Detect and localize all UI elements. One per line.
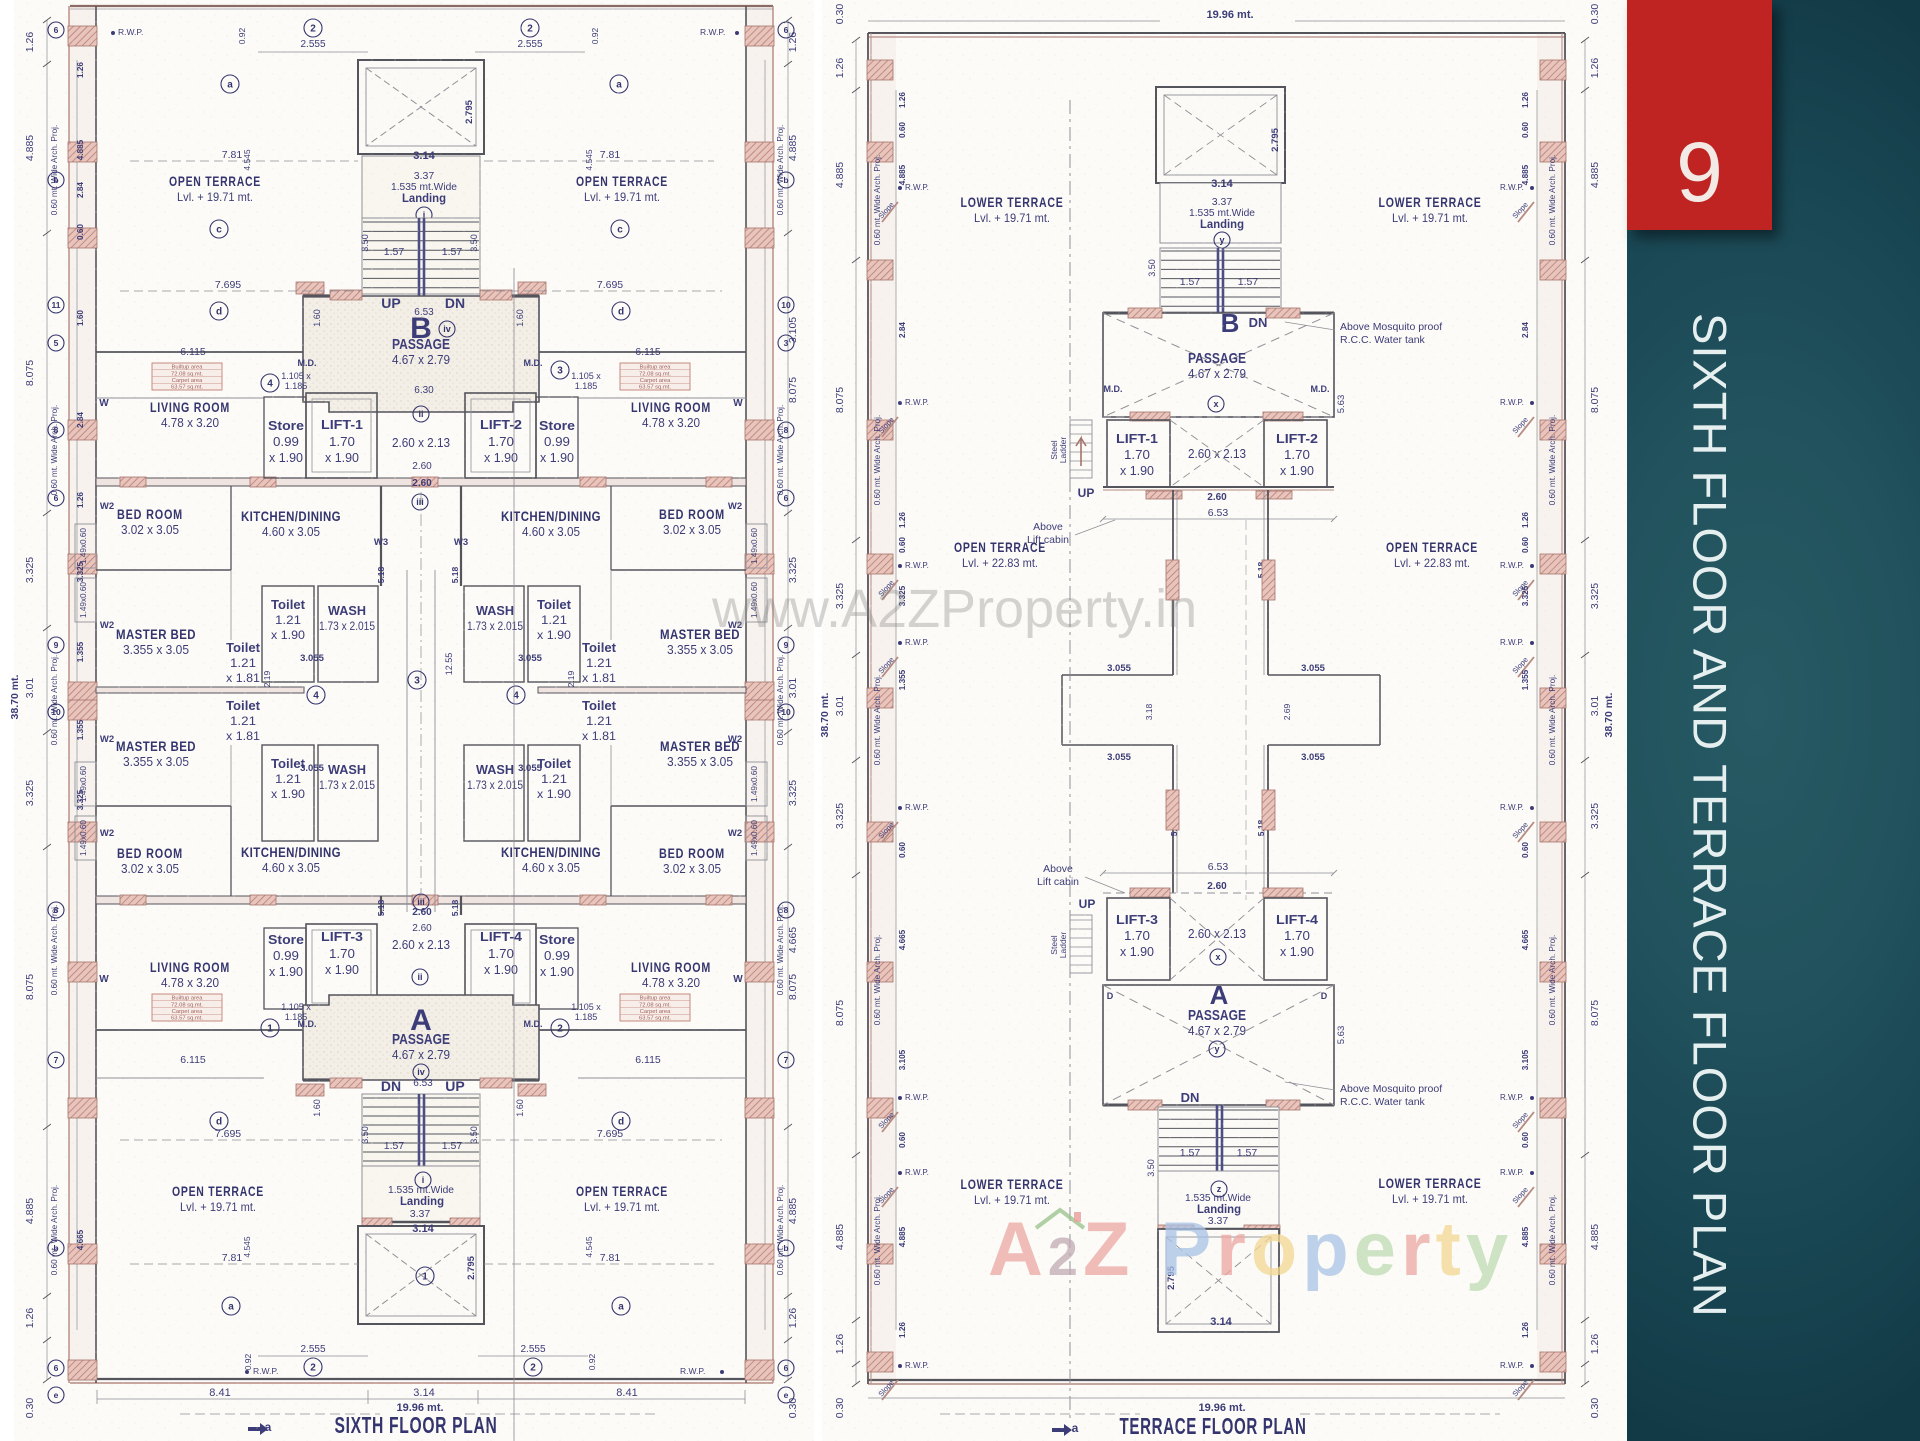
left sheet wall pier hatch blocks on right wall: [745, 26, 774, 46]
vertical slide title: [1678, 312, 1742, 1318]
teal sidebar: [1627, 0, 1920, 1441]
left sheet paper background: [14, 0, 814, 1441]
red page number tab: [1627, 0, 1772, 230]
left sheet water tank box (top): [358, 60, 484, 154]
wash box west: [318, 745, 378, 841]
left sheet horizontal wall below open terrace (line d): [96, 351, 303, 353]
right sheet staircase (bottom): [1158, 1107, 1279, 1171]
left sheet store room east (bottom): [536, 928, 578, 1009]
left sheet vertical shaft walls with W3: [380, 486, 382, 586]
left sheet main cross wall below lift row: [96, 478, 746, 486]
left sheet horizontal wall above living rooms: [96, 397, 264, 399]
left sheet lift-4: [465, 924, 536, 1009]
left sheet area statement box north-west: [152, 363, 222, 390]
left sheet staircase (bottom): [362, 1094, 480, 1166]
left sheet passage B block: [303, 296, 539, 412]
left sheet staircase (top) center rail: [418, 218, 421, 296]
right sheet landing (bottom): [1158, 1171, 1279, 1229]
left sheet landing (top): [362, 156, 480, 218]
left sheet grid bubbles east edge: [778, 22, 794, 38]
bottom watermark A2Z Property logo: [988, 1206, 1513, 1293]
left sheet outer top border wall: [70, 5, 773, 7]
left sheet store room east (top): [536, 397, 578, 478]
right sheet paper background: [822, 0, 1627, 1441]
right sheet passage A terrace block: [1103, 985, 1334, 1105]
right sheet outer border walls: [868, 32, 1565, 34]
right sheet outer wall band tint: [868, 33, 896, 1384]
left sheet horizontal wall at bedroom rows: [96, 569, 231, 571]
toilet box west-inner: [262, 586, 314, 682]
right sheet long dashed section lines: [1069, 100, 1071, 1420]
right sheet lift row bottom wall (top core): [1103, 486, 1334, 488]
left sheet grid bubbles west edge: [48, 22, 64, 38]
right sheet steel ladder (top): [1070, 420, 1092, 478]
logo house roof icon: [1036, 1210, 1084, 1228]
right sheet water tank box (top): [1156, 87, 1285, 183]
left sheet staircase (top) treads: [362, 218, 480, 294]
left sheet outer wall band tint: [69, 6, 96, 1383]
left sheet mid cross wall (between master beds): [96, 687, 304, 693]
left sheet scan fold line: [513, 268, 515, 1441]
toilet box east-inner: [528, 745, 580, 841]
right sheet wall pier hatch blocks east: [1540, 60, 1566, 80]
right sheet passage B terrace block: [1103, 313, 1334, 417]
right sheet water tank box (bottom): [1158, 1229, 1279, 1332]
left sheet outer left wall with arch projection band: [68, 6, 70, 1383]
left sheet circled iii above lift row (bottom): [413, 894, 429, 910]
left sheet store room west (top): [264, 397, 306, 478]
left sheet vertical walls bedroom/kitchen separation: [230, 486, 232, 570]
left sheet balcony ledges 1.49x0.60 right: [746, 524, 767, 568]
left sheet top edge dim 2.555 with projection arrows: [304, 19, 322, 37]
wash box east: [464, 586, 524, 682]
right sheet wall pier hatch blocks west: [867, 60, 893, 80]
right sheet lift row (top): [1103, 416, 1334, 418]
wash box east: [464, 745, 524, 841]
right sheet lift row (bottom): [1103, 892, 1334, 894]
central watermark www.A2ZProperty.in: [712, 578, 1197, 640]
left sheet lift-2: [465, 393, 536, 478]
left sheet store room west (bottom): [264, 928, 306, 1009]
left sheet outer right wall with arch projection band: [772, 6, 774, 1383]
left sheet area statement box north-east: [620, 363, 690, 390]
right sheet central shaft walls (middle): [1172, 490, 1174, 675]
left sheet balcony ledges 1.49x0.60 left: [75, 524, 96, 568]
left sheet cross wall above lower living rooms: [96, 896, 746, 904]
right sheet inner wall offset lines: [895, 90, 897, 1330]
left sheet landing (bottom): [362, 1166, 480, 1222]
left sheet passage A block: [303, 995, 539, 1080]
right sheet steel ladder (bottom): [1070, 915, 1092, 973]
toilet box east-inner: [528, 586, 580, 682]
right sheet landing (top): [1160, 183, 1281, 243]
left sheet central corridor lines: [406, 570, 408, 912]
left sheet lift-3: [306, 924, 377, 1009]
left sheet outer bottom border wall: [70, 1378, 773, 1380]
left sheet water tank box (bottom): [358, 1226, 484, 1324]
left sheet wall pier hatch blocks on left wall: [68, 26, 97, 46]
right sheet step walls 3.055 plus-band (middle): [1062, 674, 1173, 676]
toilet box west-inner: [262, 745, 314, 841]
left sheet grid bubbles top area: [221, 75, 239, 93]
right sheet bottom dimension 19.96: [868, 1397, 1565, 1399]
left sheet horizontal wall above lower open terrace: [96, 1029, 303, 1031]
right sheet staircase (top): [1160, 248, 1281, 312]
wash box west: [318, 586, 378, 682]
left sheet lift-1: [306, 393, 377, 478]
